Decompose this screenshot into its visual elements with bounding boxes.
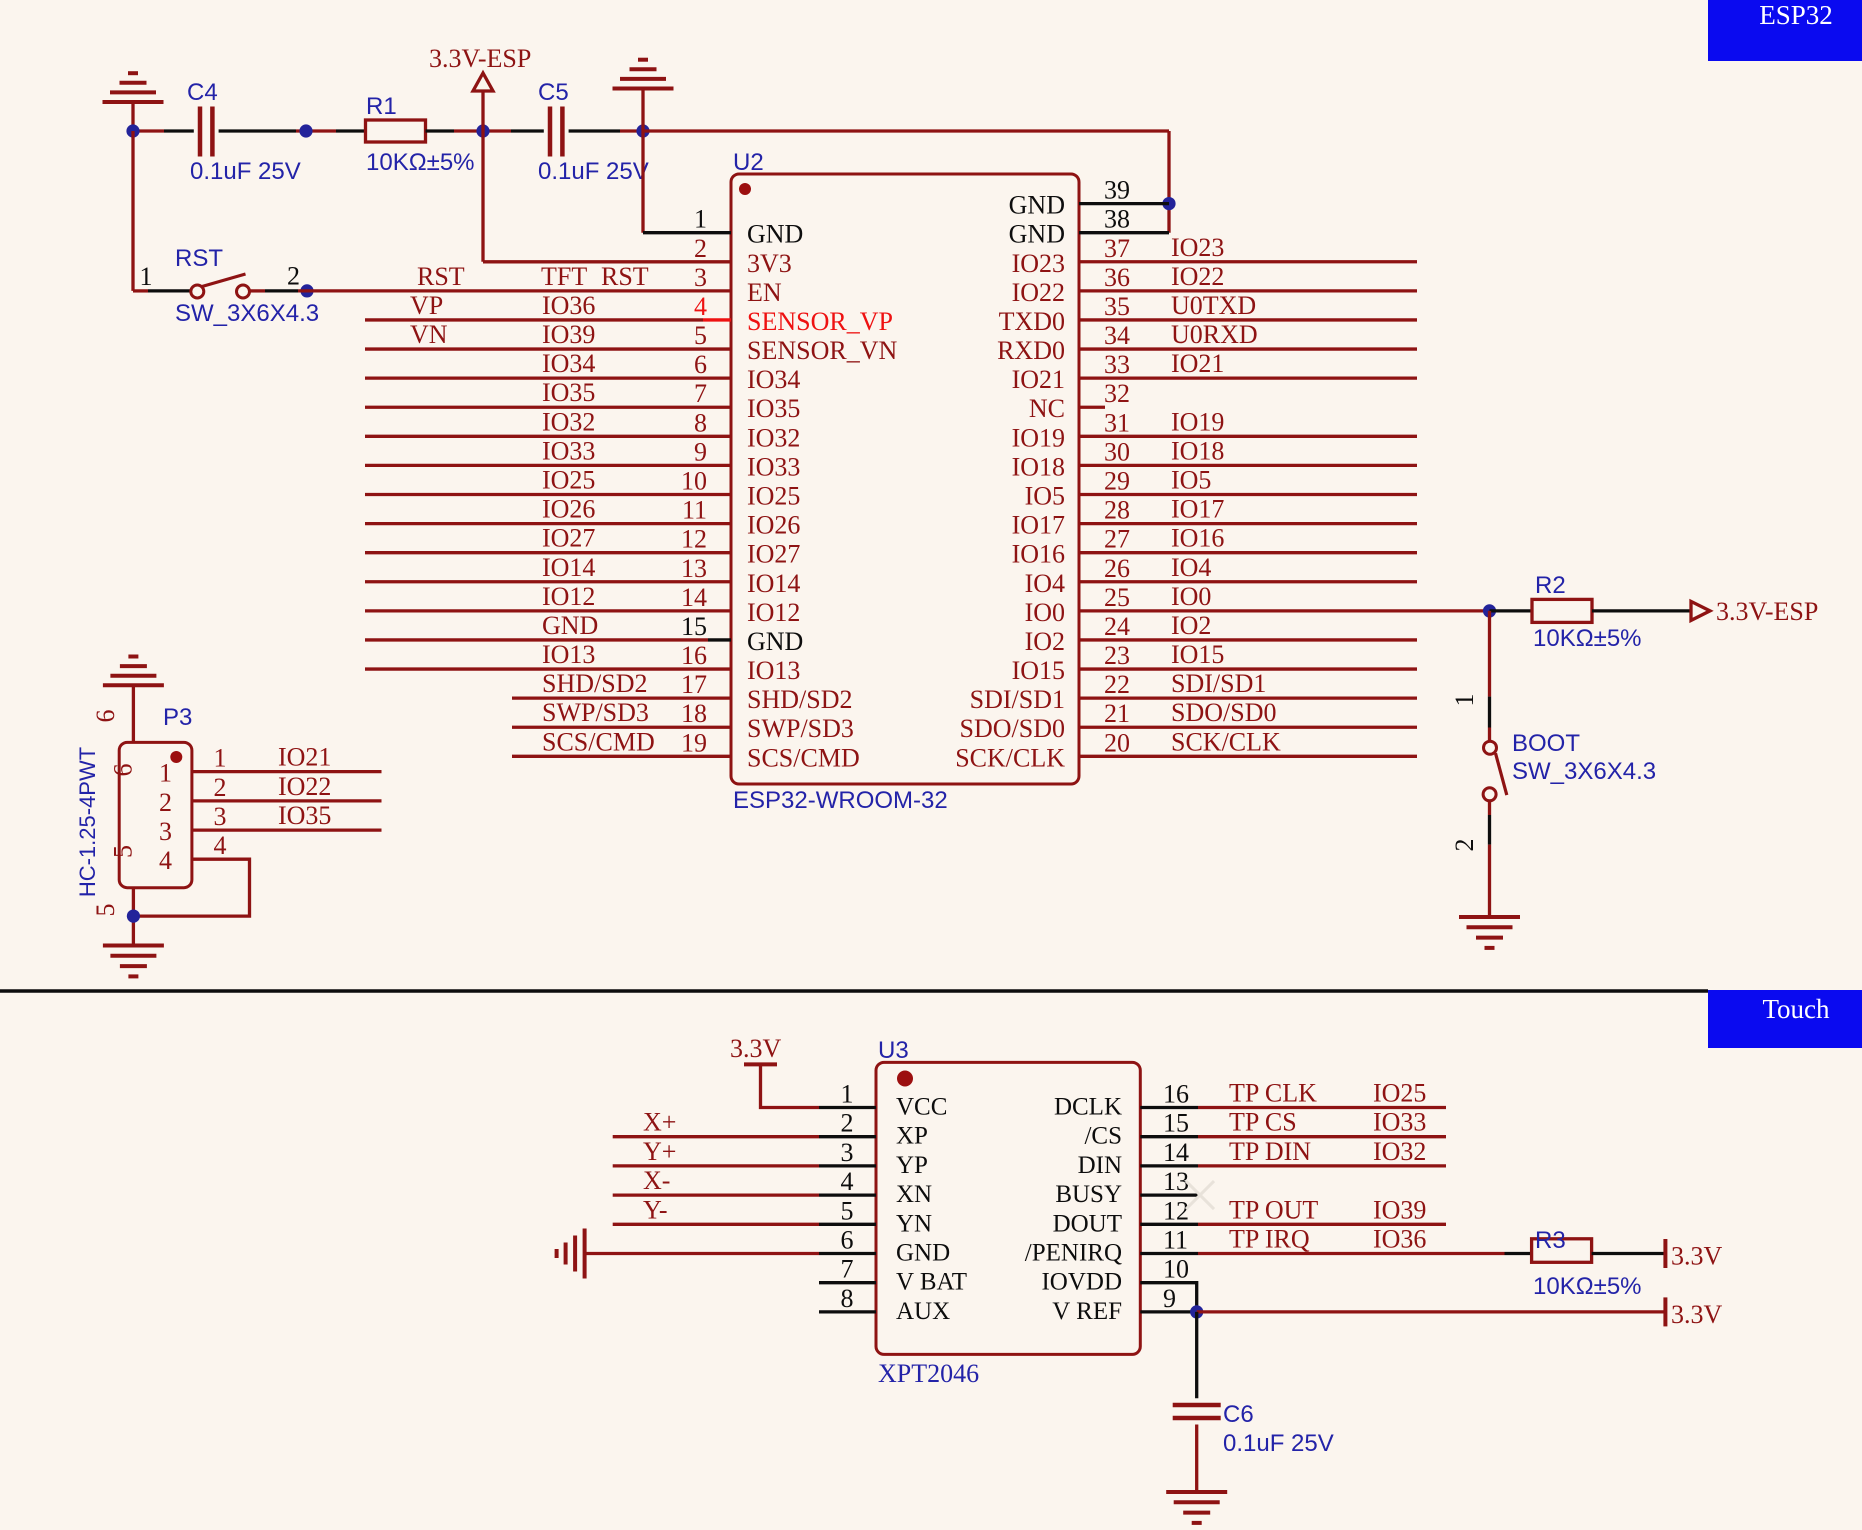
wire U3 pin13 BUSY stub [1140,1193,1198,1196]
svg-text:ESP32: ESP32 [1759,0,1833,30]
resistor R3 [1532,1239,1592,1263]
capacitor C6 [1173,1403,1221,1408]
svg-text:IO15: IO15 [1171,640,1224,669]
wire U3 pin3 stub [819,1164,876,1167]
svg-text:DOUT: DOUT [1053,1210,1122,1237]
wire node I to 3.3V bar right [1197,1310,1666,1313]
svg-text:IO21: IO21 [1171,349,1224,378]
svg-text:TP CLK: TP CLK [1229,1079,1317,1108]
svg-text:12: 12 [1163,1196,1189,1225]
svg-text:5: 5 [694,321,707,350]
svg-text:IO35: IO35 [278,801,331,830]
svg-text:IO36: IO36 [542,291,595,320]
wire U3 pin2 stub [819,1135,876,1138]
svg-text:14: 14 [1163,1138,1189,1167]
svg-text:6: 6 [694,350,707,379]
svg-text:SCK/CLK: SCK/CLK [1171,727,1281,756]
svg-text:10: 10 [681,467,707,496]
svg-text:IO4: IO4 [1025,569,1065,598]
wire U2 pin12 IO27 [365,551,731,554]
wire U2 pin18 SWP/SD3 [512,726,731,729]
wire U2 pin37 IO23 [1079,260,1417,263]
svg-text:TP OUT: TP OUT [1229,1195,1318,1224]
wire U2 pin23 IO15 [1079,667,1417,670]
svg-text:3.3V: 3.3V [730,1034,782,1063]
connector P3 HC-1.25-4PWT body [119,742,192,887]
wire U2 pin10 IO25 [365,493,731,496]
svg-text:VN: VN [410,320,448,349]
svg-text:IO32: IO32 [1373,1137,1426,1166]
svg-text:17: 17 [681,670,707,699]
svg-text:IO27: IO27 [747,540,800,569]
node F junction x307 RST row [300,284,313,297]
wire U2 pin19 SCS/CMD [512,755,731,758]
svg-text:ESP32-WROOM-32: ESP32-WROOM-32 [733,787,948,814]
power symbol 3.3V-ESP arrow [473,73,493,91]
wire U3 pin16 TP CLK [1140,1106,1198,1109]
svg-text:IO25: IO25 [542,466,595,495]
svg-text:AUX: AUX [896,1298,950,1325]
svg-text:V BAT: V BAT [896,1269,967,1296]
svg-text:12: 12 [681,525,707,554]
wire U2 pin29 IO5 [1079,493,1417,496]
svg-text:6: 6 [109,764,138,777]
svg-text:GND: GND [1009,191,1065,220]
wire C4 to node A [219,129,296,132]
svg-text:10: 10 [1163,1255,1189,1284]
IC U3 XPT2046 body [876,1062,1140,1354]
svg-text:IO14: IO14 [542,553,595,582]
title box ESP32 [1708,0,1862,61]
node A junction x305 [299,124,312,137]
svg-text:4: 4 [841,1167,854,1196]
svg-text:29: 29 [1104,467,1130,496]
node H junction IO0-R2 [1483,604,1496,617]
svg-text:IO18: IO18 [1012,452,1065,481]
svg-text:16: 16 [681,641,707,670]
svg-text:Y-: Y- [643,1195,668,1224]
svg-text:IO33: IO33 [1373,1108,1426,1137]
node C junction x643 [636,124,649,137]
svg-text:IO17: IO17 [1171,495,1224,524]
wire U2 pin26 IO4 [1079,580,1417,583]
svg-text:GND: GND [1009,220,1065,249]
svg-text:IO22: IO22 [278,772,331,801]
svg-text:SCS/CMD: SCS/CMD [747,743,860,772]
wire U2 pin24 IO2 [1079,638,1417,641]
svg-text:IO16: IO16 [1171,524,1224,553]
wire U3 pin7 V BAT stub [819,1281,876,1284]
svg-text:1: 1 [214,744,227,773]
svg-text:IO32: IO32 [542,407,595,436]
svg-text:IOVDD: IOVDD [1041,1269,1122,1296]
svg-text:Touch: Touch [1762,994,1830,1024]
svg-text:31: 31 [1104,408,1130,437]
svg-text:2: 2 [1450,839,1479,852]
wire U2 pin20 SCK/CLK [1079,755,1417,758]
ground symbol top-left [103,100,164,104]
svg-text:13: 13 [1163,1167,1189,1196]
svg-text:3: 3 [694,263,707,292]
svg-text:RST: RST [601,262,649,291]
svg-text:IO12: IO12 [747,598,800,627]
svg-text:15: 15 [681,612,707,641]
svg-text:TFT: TFT [541,262,587,291]
no-connect X marker pin13 [1186,1181,1214,1209]
svg-text:2: 2 [159,788,172,817]
svg-text:IO34: IO34 [747,365,800,394]
power symbol 3.3V bar right of R3 [1663,1239,1667,1268]
svg-text:30: 30 [1104,437,1130,466]
wire P3 pin4 loop [133,859,249,916]
svg-text:IO21: IO21 [1012,365,1065,394]
wire GND rail y131 left segment (gnd C4 junction to C4) [133,129,164,132]
svg-text:SWP/SD3: SWP/SD3 [542,698,649,727]
svg-text:23: 23 [1104,641,1130,670]
svg-text:9: 9 [1163,1284,1176,1313]
svg-text:IO15: IO15 [1012,656,1065,685]
wire R1 to node B [426,129,455,132]
wire U3 pin10 IOVDD to node I [1140,1283,1196,1312]
ground symbol left of U3 pin6 [583,1229,587,1279]
svg-text:3.3V-ESP: 3.3V-ESP [429,44,531,73]
svg-text:IO0: IO0 [1025,598,1065,627]
svg-text:GND: GND [747,627,803,656]
wire U2 pin39 GND [1079,202,1169,205]
svg-text:5: 5 [91,904,120,917]
svg-text:IO13: IO13 [747,656,800,685]
svg-text:10KΩ±5%: 10KΩ±5% [366,149,475,176]
svg-text:0.1uF 25V: 0.1uF 25V [1223,1430,1334,1457]
svg-text:10KΩ±5%: 10KΩ±5% [1533,1273,1642,1300]
svg-text:IO25: IO25 [1373,1079,1426,1108]
svg-text:U0TXD: U0TXD [1171,291,1256,320]
svg-text:RXD0: RXD0 [997,336,1065,365]
wire P3 pin2 IO22 [192,799,382,802]
wire U2 pin1 GND [643,231,731,234]
svg-text:3: 3 [841,1138,854,1167]
svg-text:IO2: IO2 [1025,627,1065,656]
svg-text:SDI/SD1: SDI/SD1 [970,685,1065,714]
svg-text:/PENIRQ: /PENIRQ [1025,1240,1122,1267]
wire U3 pin6 GND [585,1252,819,1255]
svg-text:IO22: IO22 [1012,278,1065,307]
ground symbol above P3 [103,683,164,687]
svg-text:RST: RST [417,262,465,291]
svg-text:2: 2 [287,262,300,291]
svg-text:SHD/SD2: SHD/SD2 [542,669,647,698]
svg-text:IO16: IO16 [1012,540,1065,569]
svg-text:1: 1 [694,205,707,234]
svg-text:4: 4 [159,846,172,875]
svg-text:R2: R2 [1535,572,1566,599]
svg-text:U2: U2 [733,149,764,176]
wire node H down to BOOT switch [1488,611,1491,697]
wire U2 pin8 IO32 [365,435,731,438]
svg-text:C4: C4 [187,79,218,106]
svg-text:IO33: IO33 [542,436,595,465]
svg-text:14: 14 [681,583,707,612]
wire U2 pin28 IO17 [1079,522,1417,525]
svg-text:35: 35 [1104,292,1130,321]
svg-text:4: 4 [214,831,227,860]
svg-text:IO2: IO2 [1171,611,1211,640]
svg-text:BUSY: BUSY [1055,1181,1122,1208]
svg-text:39: 39 [1104,176,1130,205]
wire U2 pin9 IO33 [365,464,731,467]
svg-text:V REF: V REF [1052,1298,1122,1325]
wire U3 pin11 /PENIRQ to R3 [1140,1252,1198,1255]
svg-text:TXD0: TXD0 [999,307,1065,336]
wire U2 pin38 GND [1079,231,1169,234]
wire U2 pin30 IO18 [1079,464,1417,467]
svg-text:8: 8 [841,1284,854,1313]
wire U3 pin4 stub [819,1193,876,1196]
svg-text:IO19: IO19 [1012,423,1065,452]
wire U2 pin22 SDI/SD1 [1079,696,1417,699]
svg-text:GND: GND [896,1240,950,1267]
svg-text:33: 33 [1104,350,1130,379]
node I junction pin9 [1190,1305,1203,1318]
node B junction x483 (3.3V-ESP tap) [476,124,489,137]
svg-text:IO39: IO39 [1373,1195,1426,1224]
svg-text:YP: YP [896,1152,928,1179]
svg-text:IO27: IO27 [542,524,595,553]
svg-text:13: 13 [681,554,707,583]
wire U2 pin34 U0RXD [1079,347,1417,350]
svg-text:2: 2 [841,1109,854,1138]
svg-text:SENSOR_VP: SENSOR_VP [747,307,893,336]
wire node F to U2 pin3 EN [298,289,731,292]
wire U2 pin31 IO19 [1079,435,1417,438]
wire U2 pin36 IO22 [1079,289,1417,292]
svg-text:IO32: IO32 [747,423,800,452]
svg-text:IO25: IO25 [747,482,800,511]
svg-text:18: 18 [681,699,707,728]
svg-text:P3: P3 [163,704,192,731]
svg-text:7: 7 [694,379,707,408]
wire U3 pin5 stub [819,1223,876,1226]
svg-text:21: 21 [1104,699,1130,728]
svg-text:IO35: IO35 [747,394,800,423]
svg-text:IO21: IO21 [278,743,331,772]
wire C5 to node C [569,129,620,132]
node G junction P3 pin5 [127,910,140,923]
svg-text:SDO/SD0: SDO/SD0 [960,714,1065,743]
svg-text:SENSOR_VN: SENSOR_VN [747,336,897,365]
wire U2 pin4 SENSOR_VP [365,318,703,321]
wire U3 pin15 TP CS [1140,1135,1198,1138]
wire U3 pin5 Y- [613,1223,819,1226]
wire U3 pin4 X- [613,1193,819,1196]
svg-text:TP IRQ: TP IRQ [1229,1225,1310,1254]
svg-text:IO35: IO35 [542,378,595,407]
svg-text:IO39: IO39 [542,320,595,349]
svg-text:IO23: IO23 [1012,249,1065,278]
svg-text:R1: R1 [366,93,397,120]
svg-text:24: 24 [1104,612,1130,641]
wire node A to R1 [336,129,366,132]
svg-text:SWP/SD3: SWP/SD3 [747,714,854,743]
wire U2 pin27 IO16 [1079,551,1417,554]
svg-text:VCC: VCC [896,1094,947,1121]
wire BOOT switch to ground [1488,801,1491,815]
svg-text:SCK/CLK: SCK/CLK [955,743,1065,772]
svg-text:34: 34 [1104,321,1130,350]
svg-text:IO33: IO33 [747,452,800,481]
power symbol 3.3V bar at V REF [1663,1297,1667,1326]
svg-text:3: 3 [159,817,172,846]
svg-text:36: 36 [1104,263,1130,292]
svg-text:IO12: IO12 [542,582,595,611]
svg-text:IO26: IO26 [542,495,595,524]
section divider line [0,989,1708,993]
pin-1 marker dot U2 [739,183,751,195]
svg-text:27: 27 [1104,525,1130,554]
wire 3.3V to U3 pin1 VCC [761,1064,820,1107]
svg-text:XN: XN [896,1181,932,1208]
ground symbol above C5 node [613,87,674,91]
svg-text:11: 11 [1163,1226,1188,1255]
power symbol 3.3V bar U3 pin1 [744,1062,777,1066]
wire ground stem to rail [131,102,134,131]
svg-text:5: 5 [109,845,138,858]
wire U2 pin21 SDO/SD0 [1079,726,1417,729]
svg-text:C6: C6 [1223,1401,1254,1428]
svg-text:IO0: IO0 [1171,582,1211,611]
svg-text:IO34: IO34 [542,349,595,378]
svg-text:38: 38 [1104,205,1130,234]
svg-text:8: 8 [694,408,707,437]
svg-text:0.1uF 25V: 0.1uF 25V [538,158,649,185]
pin-1 marker dot U3 [897,1071,913,1087]
wire U2 pin13 IO14 [365,580,731,583]
wire U2 pin5 IO39 [365,347,731,350]
wire U3 pin12 TP OUT [1140,1223,1198,1226]
svg-text:16: 16 [1163,1080,1189,1109]
IC U2 ESP32-WROOM-32 body [731,174,1079,784]
svg-text:TP DIN: TP DIN [1229,1137,1311,1166]
svg-text:SW_3X6X4.3: SW_3X6X4.3 [175,300,319,327]
svg-text:1: 1 [1450,694,1479,707]
wire U2 pin14 IO12 [365,609,731,612]
wire P3 pin1 IO21 [192,770,382,773]
svg-text:BOOT: BOOT [1512,730,1580,757]
svg-text:6: 6 [91,710,120,723]
ground symbol below C6 [1166,1490,1227,1494]
wire U2 pin11 IO26 [365,522,731,525]
svg-text:YN: YN [896,1210,932,1237]
svg-text:IO5: IO5 [1171,466,1211,495]
wire C6 to ground [1195,1425,1198,1493]
wire U3 pin9 V REF stub [1140,1310,1196,1313]
svg-text:U0RXD: U0RXD [1171,320,1258,349]
node E junction x133 [126,124,139,137]
svg-text:DCLK: DCLK [1054,1094,1122,1121]
wire U2 pin17 SHD/SD2 [512,696,731,699]
svg-text:/CS: /CS [1084,1123,1122,1150]
svg-text:IO19: IO19 [1171,407,1224,436]
resistor R1 [366,120,426,142]
svg-text:22: 22 [1104,670,1130,699]
capacitor C5 [548,107,553,157]
svg-text:TP CS: TP CS [1229,1108,1297,1137]
wire U2 pin16 IO13 [365,667,731,670]
svg-text:1: 1 [140,262,153,291]
svg-text:1: 1 [841,1080,854,1109]
wire P3 pin3 IO35 [192,828,382,831]
svg-text:SW_3X6X4.3: SW_3X6X4.3 [1512,758,1656,785]
svg-text:7: 7 [841,1255,854,1284]
wire U2 pin35 U0TXD [1079,318,1417,321]
svg-text:20: 20 [1104,728,1130,757]
node D junction pin39 [1162,197,1175,210]
wire U3 pin3 Y+ [613,1164,819,1167]
svg-text:VP: VP [410,291,443,320]
wire node H to R2 [1490,609,1533,612]
svg-text:U3: U3 [878,1037,909,1064]
wire P3 pin5 down [132,888,135,946]
wire ground stem to node C [641,89,644,132]
ground symbol below P3 [103,944,164,948]
svg-text:11: 11 [682,496,707,525]
svg-text:IO26: IO26 [747,511,800,540]
svg-text:1: 1 [159,759,172,788]
wire U3 pin2 X+ [613,1135,819,1138]
svg-text:SDO/SD0: SDO/SD0 [1171,698,1276,727]
svg-text:IO4: IO4 [1171,553,1211,582]
svg-text:37: 37 [1104,234,1130,263]
svg-text:HC-1.25-4PWT: HC-1.25-4PWT [75,747,100,897]
wire U3 pin1 stub [819,1106,876,1109]
svg-text:IO18: IO18 [1171,436,1224,465]
svg-text:6: 6 [841,1226,854,1255]
wire U2 pin6 IO34 [365,376,731,379]
svg-text:C5: C5 [538,79,569,106]
resistor R2 [1532,599,1592,622]
wire top rail node C to right corner x1169 [643,129,1169,132]
svg-text:IO36: IO36 [1373,1225,1426,1254]
wire right corner down to pin38 row [1167,131,1170,233]
wire U3 pin8 AUX stub [819,1310,876,1313]
svg-text:IO17: IO17 [1012,511,1065,540]
wire node I down to C6 [1195,1312,1198,1398]
svg-text:IO14: IO14 [747,569,800,598]
svg-text:DIN: DIN [1078,1152,1122,1179]
ground symbol below BOOT [1459,915,1520,919]
svg-text:GND: GND [542,611,598,640]
svg-text:X+: X+ [643,1108,676,1137]
svg-text:2: 2 [694,234,707,263]
svg-text:10KΩ±5%: 10KΩ±5% [1533,625,1642,652]
svg-text:3.3V-ESP: 3.3V-ESP [1716,597,1818,626]
wire node C down to U2 pin1 [641,131,644,233]
wire U2 pin25 IO0 to R2 node [1079,609,1490,612]
svg-text:NC: NC [1029,394,1065,423]
svg-text:25: 25 [1104,583,1130,612]
wire RST row to switch pin1 [133,289,148,292]
wire x133 down to RST switch [131,131,134,291]
pin-1 marker dot P3 [170,751,182,763]
svg-text:IO5: IO5 [1025,482,1065,511]
svg-text:19: 19 [681,728,707,757]
wire 3.3V-ESP arrow down to 3V3 pin row [481,91,484,262]
svg-text:9: 9 [694,437,707,466]
svg-text:15: 15 [1163,1109,1189,1138]
svg-text:32: 32 [1104,379,1130,408]
svg-text:RST: RST [175,245,223,272]
wire U2 pin32 NC stub [1079,406,1105,409]
